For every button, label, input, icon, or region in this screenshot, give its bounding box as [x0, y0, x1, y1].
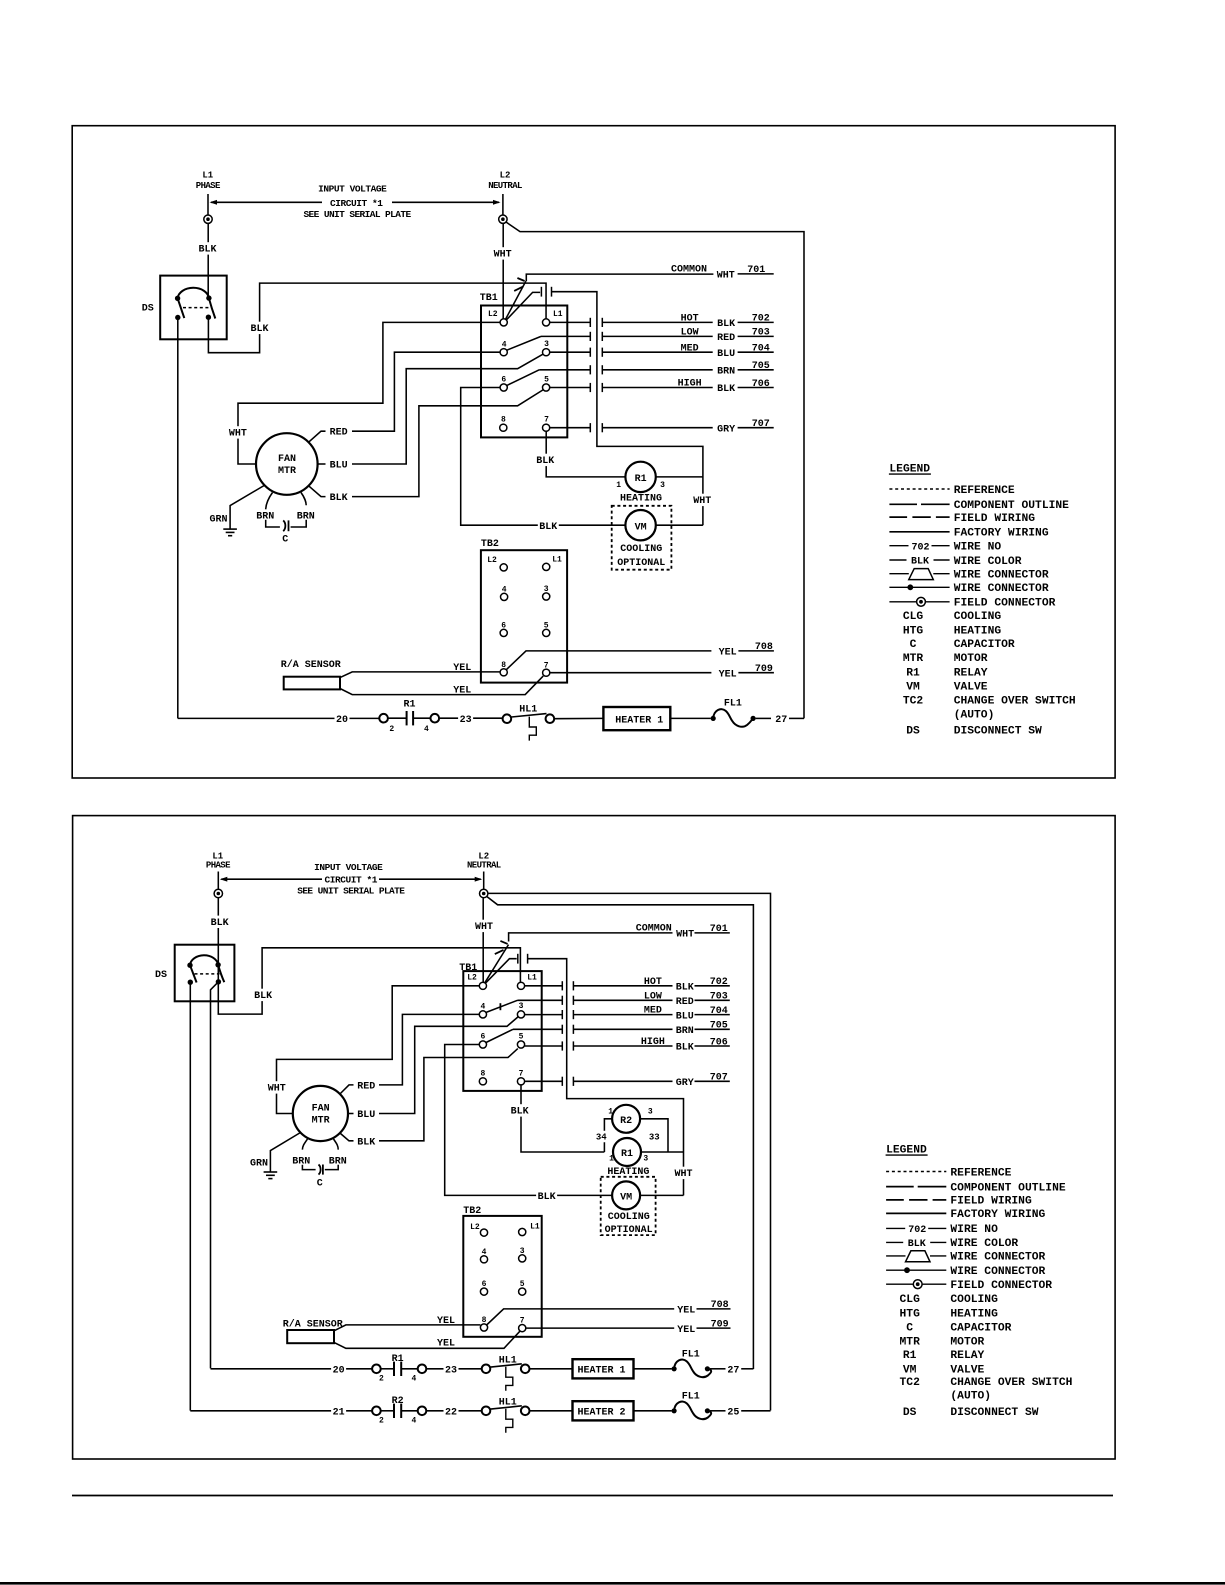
wire row BRN 705 from TB1-6	[507, 370, 540, 386]
wire label BLK under TB1-7	[535, 454, 556, 466]
svg-text:BLU: BLU	[330, 461, 348, 472]
relay coil R2 (bottom)	[612, 1105, 640, 1133]
svg-text:707: 707	[710, 1073, 728, 1084]
wire rail to heater circuit HEATER 1	[211, 1368, 373, 1370]
legend wire connector trapezoid symbol	[889, 573, 908, 575]
svg-text:3: 3	[648, 1107, 653, 1116]
wire L2 connector to inner right rail (bottom)	[487, 896, 754, 1369]
wire fan BLU to TB1-3	[318, 463, 326, 465]
svg-text:COMPONENT OUTLINE: COMPONENT OUTLINE	[950, 1182, 1065, 1194]
svg-text:L1: L1	[553, 310, 563, 319]
svg-text:704: 704	[710, 1006, 728, 1017]
svg-text:VM: VM	[635, 522, 647, 533]
bottom diagram border frame	[73, 816, 1116, 1459]
wire R2 pin3 bracket to R1 pin3	[640, 1119, 668, 1152]
legend wire connector dot symbol	[886, 1269, 946, 1271]
valve coil VM (bottom)	[612, 1181, 640, 1209]
wire arm2-connector to WHT drop (to R1/VM)	[552, 292, 703, 526]
svg-text:YEL: YEL	[437, 1316, 455, 1327]
TB2 terminal 5 (bottom)	[519, 1288, 526, 1295]
wire row HOT BLK 702 from TB1-L1 (bottom)	[525, 985, 563, 987]
svg-text:CIRCUIT *1: CIRCUIT *1	[330, 198, 383, 209]
svg-text:4: 4	[424, 725, 429, 734]
wire fan BRN right lead (bottom)	[334, 1139, 339, 1150]
svg-text:RELAY: RELAY	[954, 667, 988, 679]
wire L2 lead-in	[502, 194, 504, 215]
svg-text:MED: MED	[681, 343, 699, 354]
svg-text:704: 704	[752, 344, 770, 355]
svg-text:702: 702	[752, 314, 770, 325]
horizontal rule below diagrams	[72, 1495, 1113, 1497]
svg-text:GRY: GRY	[717, 424, 735, 435]
TB1 terminal 3	[543, 349, 550, 356]
svg-text:BLU: BLU	[717, 349, 735, 360]
wire HEATER 1 to FL1	[670, 717, 710, 719]
svg-text:BLK: BLK	[676, 983, 694, 994]
DS left blade	[178, 298, 185, 318]
svg-text:5: 5	[519, 1032, 524, 1041]
heater terminal 2 (HEATER 1)	[372, 1365, 381, 1374]
wire row LOW RED 703 from TB1-4 (bottom)	[486, 1000, 518, 1012]
svg-text:FL1: FL1	[682, 1392, 700, 1403]
svg-text:DS: DS	[903, 1407, 917, 1419]
svg-text:CIRCUIT *1: CIRCUIT *1	[324, 875, 377, 886]
wire row HIGH BLK 706 from TB1-5	[550, 387, 591, 389]
wire FL1 to 27	[710, 1368, 726, 1370]
svg-text:BLK: BLK	[911, 557, 929, 568]
svg-text:YEL: YEL	[719, 669, 737, 680]
svg-text:OPTIONAL: OPTIONAL	[605, 1225, 653, 1236]
TB1 fan switch arm 2 (bottom)	[483, 959, 517, 986]
svg-text:R1: R1	[392, 1354, 404, 1365]
wire no 23	[444, 1363, 459, 1375]
wire BLK from TB1-6 to VM	[461, 388, 626, 526]
wire L1 connector through DS to TB1-L1 (bottom)	[218, 898, 520, 1014]
svg-text:6: 6	[480, 1033, 485, 1042]
wire DS to left rail down to heater row	[177, 318, 179, 719]
capacitor C (top)	[283, 520, 285, 531]
wire no 20	[331, 1363, 346, 1375]
svg-text:RED: RED	[676, 997, 694, 1008]
svg-text:WHT: WHT	[475, 922, 493, 933]
TB1 fan switch arm 2 (to wire connector)	[504, 292, 540, 322]
TB2 terminal 4	[501, 593, 508, 600]
svg-text:21: 21	[333, 1408, 345, 1419]
svg-text:BLK: BLK	[211, 918, 229, 929]
wire fan BLU to TB1-3 (bottom)	[348, 1113, 354, 1115]
wire no 21	[331, 1405, 346, 1417]
arm 1 tip tick	[517, 278, 524, 281]
wire COMMON 701	[526, 274, 713, 281]
wire fan WHT to TB1-L2	[238, 322, 500, 464]
svg-text:3: 3	[520, 1247, 525, 1256]
svg-text:L2: L2	[500, 171, 511, 181]
svg-text:COMMON: COMMON	[671, 265, 707, 276]
svg-text:705: 705	[710, 1021, 728, 1032]
TB2 terminal 4 (bottom)	[480, 1256, 487, 1263]
terminal block TB2 (bottom) box	[463, 1216, 541, 1337]
page bottom edge line	[0, 1582, 1225, 1585]
svg-text:WHT: WHT	[674, 1169, 692, 1180]
TB2 terminal L2 (bottom)	[480, 1229, 487, 1236]
svg-text:MED: MED	[644, 1006, 662, 1017]
svg-text:SEE UNIT SERIAL PLATE: SEE UNIT SERIAL PLATE	[303, 209, 411, 220]
svg-text:TB2: TB2	[463, 1206, 481, 1217]
svg-text:RED: RED	[717, 333, 735, 344]
wire DS diagonal to rail (heater row 1)	[211, 982, 219, 1369]
svg-text:4: 4	[482, 1248, 487, 1257]
svg-text:WHT: WHT	[268, 1084, 286, 1095]
HEATER 1 box (top)	[603, 707, 670, 730]
wire L1 lead-in	[207, 194, 209, 215]
TB1 terminal L1	[543, 319, 550, 326]
svg-text:R/A SENSOR: R/A SENSOR	[281, 659, 341, 671]
wire R2 pin1 bracket to R1 pin1	[604, 1119, 612, 1152]
wire no 20	[335, 713, 350, 725]
svg-text:WIRE NO: WIRE NO	[950, 1224, 998, 1236]
svg-text:SEE UNIT SERIAL PLATE: SEE UNIT SERIAL PLATE	[297, 886, 405, 897]
svg-text:27: 27	[727, 1365, 739, 1376]
tick on 4-703 diagonal	[499, 1003, 501, 1010]
wire label WHT under L2	[492, 247, 513, 259]
terminal block TB1 (top) box	[481, 306, 567, 438]
svg-text:20: 20	[333, 1366, 345, 1377]
svg-text:BLK: BLK	[538, 1192, 556, 1203]
svg-text:HEATING: HEATING	[620, 494, 662, 505]
svg-text:RELAY: RELAY	[950, 1350, 984, 1362]
svg-text:5: 5	[520, 1280, 525, 1289]
terminal block TB1 (bottom) box	[463, 971, 541, 1091]
legend wire color symbol	[886, 1241, 903, 1243]
svg-text:DS: DS	[155, 970, 167, 981]
wire TB2-8 to YEL 708 (bottom)	[487, 1309, 675, 1325]
svg-text:708: 708	[711, 1300, 729, 1311]
svg-text:FIELD WIRING: FIELD WIRING	[950, 1196, 1032, 1208]
legend factory wiring line style	[889, 531, 949, 533]
svg-text:GRN: GRN	[250, 1158, 268, 1169]
wire sensor to TB2-7 (YEL)	[340, 676, 543, 695]
svg-text:VALVE: VALVE	[954, 682, 988, 694]
svg-text:34: 34	[596, 1132, 607, 1142]
svg-text:COMPONENT OUTLINE: COMPONENT OUTLINE	[954, 500, 1069, 512]
wire fan BRN right lead	[301, 493, 306, 506]
wire row MED BLU 704 from TB1-3 (bottom)	[525, 1014, 563, 1016]
label 34	[594, 1131, 608, 1142]
valve VM dashed optional box (top)	[612, 506, 672, 570]
svg-text:HTG: HTG	[900, 1309, 921, 1321]
TB1 terminal 4 (bottom)	[479, 1011, 486, 1018]
wire 701 tail	[738, 273, 774, 275]
svg-text:(AUTO): (AUTO)	[954, 709, 995, 721]
svg-text:RED: RED	[330, 428, 348, 439]
TB1 terminal 5	[543, 384, 550, 391]
svg-text:WIRE CONNECTOR: WIRE CONNECTOR	[954, 570, 1049, 582]
svg-text:HEATING: HEATING	[954, 626, 1002, 638]
wire row GRY 707 from TB1-7 (bottom)	[525, 1080, 563, 1082]
wire label WHT under L2 (bottom)	[474, 920, 495, 932]
wire HL1 to HEATER 2	[530, 1410, 573, 1412]
wire label BLK under L1	[197, 242, 218, 254]
svg-text:702: 702	[911, 542, 929, 553]
svg-text:CAPACITOR: CAPACITOR	[950, 1322, 1011, 1334]
svg-text:FACTORY WIRING: FACTORY WIRING	[954, 528, 1049, 540]
svg-text:FL1: FL1	[682, 1350, 700, 1361]
wire 27 to right rail	[789, 717, 804, 719]
arm 1 mid tick	[514, 286, 523, 291]
svg-text:1: 1	[616, 481, 621, 490]
svg-text:3: 3	[643, 1155, 648, 1164]
svg-text:WIRE COLOR: WIRE COLOR	[954, 556, 1022, 568]
field connector L1 (bottom)	[214, 889, 222, 897]
wire TB2-7 to YEL 709	[550, 672, 712, 674]
svg-text:PHASE: PHASE	[196, 181, 221, 191]
wire L2 connector to outer right rail (bottom)	[488, 893, 771, 1410]
TB1 fan switch arm 1 (bottom)	[483, 945, 509, 986]
wire 25 to right rail	[741, 1410, 770, 1412]
svg-text:C: C	[282, 535, 288, 546]
disconnect switch DS (bottom) box	[175, 945, 235, 1002]
svg-text:L2: L2	[470, 1223, 480, 1232]
svg-text:707: 707	[752, 419, 770, 430]
wire arm2-connector to WHT drop (bottom)	[528, 959, 684, 1196]
arm 1 tip tick (bottom)	[500, 941, 507, 944]
svg-text:YEL: YEL	[453, 685, 471, 696]
svg-text:709: 709	[755, 664, 773, 675]
TB2 terminal 6 (bottom)	[480, 1288, 487, 1295]
svg-text:HEATER 2: HEATER 2	[577, 1408, 625, 1419]
svg-text:COOLING: COOLING	[620, 544, 662, 555]
svg-text:8: 8	[480, 1069, 485, 1078]
svg-text:HEATING: HEATING	[950, 1309, 998, 1321]
svg-text:TC2: TC2	[903, 696, 924, 708]
svg-text:BRN: BRN	[676, 1026, 694, 1037]
svg-text:WHT: WHT	[676, 930, 694, 941]
svg-text:MTR: MTR	[903, 653, 924, 665]
HEATER 1 box	[573, 1359, 634, 1378]
svg-text:VALVE: VALVE	[950, 1364, 984, 1376]
svg-text:WHT: WHT	[693, 496, 711, 507]
DS linkage dashed (bottom)	[195, 973, 220, 975]
svg-text:TC2: TC2	[900, 1377, 921, 1389]
svg-text:8: 8	[501, 661, 506, 670]
svg-text:FAN: FAN	[278, 454, 296, 465]
svg-text:R2: R2	[392, 1396, 404, 1407]
label WHT fan lead	[227, 426, 248, 438]
heater terminal 2 (HEATER 2)	[372, 1407, 381, 1416]
wire TB1-7 BLK to relay R1 pin 1 (bottom)	[521, 1085, 604, 1152]
TB2 terminal L2	[500, 564, 507, 571]
svg-text:OPTIONAL: OPTIONAL	[617, 558, 665, 569]
svg-text:LOW: LOW	[681, 328, 699, 339]
TB2 terminal 5	[543, 629, 550, 636]
svg-text:WIRE NO: WIRE NO	[954, 542, 1002, 554]
thermal limit switch HL1 (HEATER 2)	[482, 1407, 491, 1416]
svg-text:RED: RED	[357, 1081, 375, 1092]
field connector L2 (top)	[499, 215, 507, 223]
DS left blade (bottom)	[190, 965, 197, 982]
svg-text:BLK: BLK	[330, 493, 348, 504]
svg-text:VM: VM	[906, 682, 920, 694]
svg-text:7: 7	[520, 1317, 525, 1326]
svg-text:R2: R2	[620, 1116, 632, 1127]
svg-text:LOW: LOW	[644, 991, 662, 1002]
wire R1 pin 3 to WHT drop (bottom)	[641, 1151, 684, 1153]
legend reference line style	[886, 1171, 946, 1173]
svg-text:BLK: BLK	[676, 1043, 694, 1054]
svg-text:BLK: BLK	[254, 991, 272, 1002]
svg-text:7: 7	[544, 416, 549, 425]
wire label BLK under TB1-7 (bottom)	[509, 1104, 530, 1116]
svg-text:GRN: GRN	[209, 515, 227, 526]
wire sensor to TB2-8 (YEL)	[340, 672, 500, 678]
TB1 terminal 6 (bottom)	[479, 1041, 486, 1048]
svg-text:703: 703	[752, 328, 770, 339]
TB1 terminal 8	[500, 424, 507, 431]
legend wire no symbol	[889, 545, 908, 547]
wire rail to heater circuit HEATER 2	[190, 1410, 372, 1412]
DS switch arc blade	[178, 288, 216, 319]
svg-text:GRY: GRY	[676, 1078, 694, 1089]
svg-text:708: 708	[755, 642, 773, 653]
svg-text:23: 23	[460, 715, 472, 726]
wire VM to WHT drop (bottom)	[640, 1194, 683, 1196]
svg-text:HIGH: HIGH	[641, 1037, 665, 1048]
svg-text:HIGH: HIGH	[678, 379, 702, 390]
legend field wiring line style	[886, 1199, 904, 1201]
label WHT fan lead (bottom)	[266, 1081, 287, 1093]
wire FL1 to 27	[756, 717, 771, 719]
svg-text:WHT: WHT	[494, 250, 512, 261]
HEATER 2 box	[573, 1401, 634, 1420]
wire COMMON 701 (bottom)	[509, 933, 673, 942]
TB1 terminal 3 (bottom)	[517, 1011, 524, 1018]
wire no 23	[458, 713, 473, 725]
svg-text:WIRE CONNECTOR: WIRE CONNECTOR	[950, 1266, 1045, 1278]
svg-text:5: 5	[544, 622, 549, 631]
svg-text:4: 4	[411, 1375, 416, 1384]
svg-text:FAN: FAN	[312, 1104, 330, 1115]
wire left rail to heater circuit	[178, 717, 379, 719]
disconnect switch DS (top) box	[160, 276, 227, 340]
wire label BLK before VM (bottom)	[536, 1190, 557, 1202]
fan motor circle (bottom)	[293, 1086, 348, 1141]
svg-text:BLK: BLK	[908, 1239, 926, 1250]
svg-text:R/A SENSOR: R/A SENSOR	[283, 1318, 343, 1330]
svg-text:COOLING: COOLING	[954, 611, 1002, 623]
svg-text:BLK: BLK	[511, 1107, 529, 1118]
wire label BLK at elbow (bottom)	[253, 989, 274, 1001]
TB2 terminal 8 (bottom)	[480, 1324, 487, 1331]
TB2 terminal 6	[500, 629, 507, 636]
svg-text:YEL: YEL	[677, 1325, 695, 1336]
svg-text:DISCONNECT SW: DISCONNECT SW	[954, 726, 1042, 738]
svg-text:5: 5	[544, 375, 549, 384]
svg-text:L1: L1	[527, 973, 537, 982]
label WHT near R1 (bottom)	[673, 1167, 694, 1179]
svg-text:20: 20	[336, 715, 348, 726]
svg-text:WIRE CONNECTOR: WIRE CONNECTOR	[954, 583, 1049, 595]
wire no 22	[444, 1405, 459, 1417]
svg-text:706: 706	[710, 1037, 728, 1048]
field connector L2 (bottom)	[480, 889, 488, 897]
svg-text:1: 1	[609, 1155, 614, 1164]
legend wire connector trapezoid symbol	[886, 1255, 905, 1257]
svg-text:NEUTRAL: NEUTRAL	[467, 860, 501, 870]
svg-text:BRN: BRN	[292, 1156, 310, 1167]
TB1 terminal 4	[500, 349, 507, 356]
svg-text:DISCONNECT SW: DISCONNECT SW	[950, 1407, 1038, 1419]
svg-text:3: 3	[519, 1002, 524, 1011]
svg-text:706: 706	[752, 379, 770, 390]
svg-text:HL1: HL1	[519, 704, 537, 715]
svg-text:CHANGE OVER SWITCH: CHANGE OVER SWITCH	[954, 696, 1076, 708]
svg-text:CLG: CLG	[903, 611, 924, 623]
R/A sensor box (top)	[284, 677, 340, 690]
wire row BRN 705 from TB1-6 (bottom)	[486, 1029, 513, 1042]
wire fan BRN left lead	[266, 493, 273, 510]
svg-text:TB2: TB2	[481, 539, 499, 550]
wire VM to WHT drop	[656, 524, 703, 526]
wire HL1 to HEATER 1	[554, 717, 603, 719]
legend factory wiring line style	[886, 1212, 946, 1214]
valve VM dashed optional box (bottom)	[601, 1177, 656, 1235]
svg-text:7: 7	[519, 1069, 524, 1078]
svg-text:C: C	[910, 639, 917, 651]
input voltage dimension line with arrows	[211, 201, 322, 203]
svg-text:C: C	[317, 1179, 323, 1190]
svg-text:BLK: BLK	[539, 522, 557, 533]
svg-text:BRN: BRN	[717, 367, 735, 378]
wire HL1 to HEATER 1	[530, 1368, 573, 1370]
svg-text:WHT: WHT	[229, 429, 247, 440]
heater terminal 4 (HEATER 2)	[418, 1407, 427, 1416]
TB2 terminal L1 (bottom)	[519, 1228, 526, 1235]
svg-text:4: 4	[502, 341, 507, 350]
svg-text:WIRE COLOR: WIRE COLOR	[950, 1238, 1018, 1250]
relay contact R2 (heater row)	[381, 1410, 394, 1412]
svg-text:CAPACITOR: CAPACITOR	[954, 639, 1015, 651]
svg-text:1: 1	[608, 1107, 613, 1116]
wire sensor to TB2-8 YEL (bottom)	[334, 1325, 480, 1331]
wire row GRY 707 from TB1-7	[550, 427, 591, 429]
legend reference line style	[889, 488, 949, 490]
wire fan BRN left lead (bottom)	[302, 1139, 307, 1150]
svg-text:702: 702	[710, 977, 728, 988]
svg-text:MOTOR: MOTOR	[954, 653, 988, 665]
TB2 terminal 7	[543, 669, 550, 676]
svg-text:FIELD CONNECTOR: FIELD CONNECTOR	[950, 1280, 1052, 1292]
svg-text:HOT: HOT	[644, 977, 662, 988]
input voltage dimension line with arrows (bottom)	[221, 878, 322, 880]
svg-text:COOLING: COOLING	[950, 1294, 998, 1306]
svg-text:REFERENCE: REFERENCE	[950, 1167, 1011, 1179]
svg-text:R1: R1	[903, 1350, 917, 1362]
arm 1 mid tick (bottom)	[495, 950, 504, 954]
wire fan WHT to TB1-L2 (bottom)	[277, 986, 480, 1114]
relay contact R1 (heater row)	[381, 1368, 394, 1370]
svg-text:2: 2	[379, 1375, 384, 1384]
svg-text:HL1: HL1	[499, 1397, 517, 1408]
svg-text:8: 8	[482, 1316, 487, 1325]
wire row MED BLU 704 from TB1-3	[550, 351, 591, 353]
TB2 terminal L1	[543, 563, 550, 570]
wire HEATER 2 to FL1	[634, 1410, 672, 1412]
svg-text:4: 4	[480, 1003, 485, 1012]
TB2 terminal 3	[543, 593, 550, 600]
svg-text:L1: L1	[552, 556, 562, 565]
wire to HL1 (HEATER 2)	[426, 1410, 481, 1412]
svg-text:MTR: MTR	[900, 1336, 921, 1348]
